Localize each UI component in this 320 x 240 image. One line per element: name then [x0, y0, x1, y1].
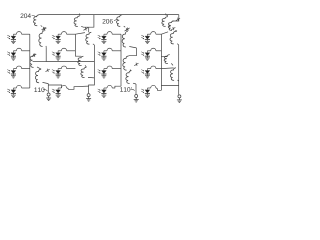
transistor C3	[170, 68, 178, 81]
wire right bus mid	[178, 45, 180, 81]
wire r3c4 to C3	[161, 67, 173, 70]
wire r2c2 to QB1b	[75, 51, 81, 56]
photodiode D43	[98, 88, 107, 97]
photodiode D33	[98, 69, 107, 78]
wire r1c4 to C2	[161, 32, 168, 34]
wire D34 anode lead	[147, 68, 150, 70]
wire h-link row3	[46, 61, 94, 63]
wire hop D13	[107, 32, 112, 35]
arrow right of Q2R	[134, 63, 138, 66]
label 110 prime	[120, 87, 123, 91]
wire Q2 corner	[33, 61, 47, 63]
wire r4c4 jog	[156, 88, 162, 90]
wire D22 row	[67, 50, 76, 52]
terminal output 112	[134, 95, 139, 103]
wire D12 row	[67, 33, 76, 35]
wire hop D32	[61, 66, 66, 69]
transistor Q1R	[122, 31, 136, 48]
photodiode D22	[52, 51, 61, 60]
photodiode D13	[98, 34, 107, 43]
wire D32 row	[67, 68, 76, 70]
wire rail right corner	[172, 15, 179, 21]
arrow above Q2	[32, 54, 36, 57]
photodiode D44	[141, 88, 150, 97]
leader 204	[32, 16, 36, 17]
transistor Q2R	[123, 56, 131, 71]
terminal output 110	[46, 93, 51, 101]
transistor QB1b	[78, 56, 87, 67]
label 110	[34, 88, 37, 92]
wire hop D33	[107, 66, 112, 69]
wire hop D34	[151, 66, 156, 69]
wire hop D24	[151, 48, 156, 51]
wire D24 anode lead	[147, 50, 150, 52]
arrow above Q1	[42, 28, 46, 31]
arrow at Q206 emitter	[126, 28, 130, 31]
photodiode D23	[98, 51, 107, 60]
photodiode D41	[7, 88, 16, 97]
transistor C2b	[164, 55, 173, 66]
leader 110 prime	[131, 89, 135, 90]
transistor QC	[162, 15, 171, 27]
wire r4c4 upper link	[161, 85, 178, 87]
transistor Q206	[117, 15, 126, 27]
wire column bus 4	[160, 34, 162, 90]
wire r4c3 corner	[115, 86, 121, 88]
wire D14 row	[156, 33, 162, 35]
transistor Q3R	[126, 71, 136, 84]
wire D31 anode lead	[13, 68, 16, 70]
arrow at Q204 emitter	[42, 27, 46, 30]
terminal output 2	[86, 94, 91, 102]
wire Q3 to terminal	[48, 84, 61, 93]
wire right bus lower	[178, 81, 180, 95]
wire column bus 1	[29, 34, 31, 88]
label 206	[103, 19, 106, 24]
photodiode D11	[7, 34, 16, 43]
leader 110	[43, 89, 48, 91]
photodiode D34	[141, 69, 150, 78]
arrow right of Q3	[46, 69, 50, 72]
wire hop D11	[16, 32, 21, 35]
wire D31 row	[22, 68, 30, 70]
transistor Q1	[39, 31, 46, 47]
wire left bus mid	[93, 45, 95, 78]
wire D21 row	[22, 50, 30, 52]
wire left bus lower	[89, 78, 95, 93]
wire hop D22	[61, 48, 66, 51]
wire D14 anode lead	[147, 33, 150, 35]
wire hop D41	[16, 85, 21, 88]
wire D34 row	[156, 68, 162, 70]
wire D43 anode lead	[104, 87, 107, 89]
wire Q1R exit	[129, 48, 137, 56]
junction tick QC tap	[165, 13, 168, 15]
wire D32 anode lead	[58, 68, 61, 70]
wire hop D43	[107, 85, 112, 88]
wire D41 row	[22, 87, 30, 89]
transistor QA	[74, 16, 89, 27]
transistor C2	[170, 31, 179, 45]
arrow above C1	[176, 18, 180, 21]
wire D24 row	[156, 50, 162, 52]
photodiode D12	[52, 34, 61, 43]
wire hop D12	[61, 32, 66, 35]
wire left bus from rail	[89, 15, 94, 33]
photodiode D32	[52, 69, 61, 78]
wire D21 anode lead	[13, 50, 16, 52]
wire Q1 exit	[45, 47, 47, 62]
wire D23 row	[112, 50, 121, 52]
leader 206	[114, 19, 117, 21]
wire hop D21	[16, 48, 21, 51]
transistor QB1	[86, 32, 95, 45]
wire column bus 3	[120, 34, 122, 86]
photodiode D31	[7, 69, 16, 78]
arrow at QA emitter	[84, 27, 88, 30]
wire D44 anode lead	[147, 87, 150, 89]
wire D23 anode lead	[104, 50, 107, 52]
photodiode D24	[141, 51, 150, 60]
wire r1c2 to QB1	[75, 33, 85, 35]
wire D22 anode lead	[58, 50, 61, 52]
wire r4c3 row	[112, 87, 115, 89]
transistor Q3	[35, 69, 48, 83]
wire hop D31	[16, 66, 21, 69]
wire Q3R to terminal	[135, 84, 137, 94]
transistor QB2	[81, 67, 95, 78]
transistor Q2	[30, 54, 41, 69]
transistor Q204	[34, 15, 43, 27]
wire D41 anode lead	[13, 87, 16, 89]
wire hop D23	[107, 48, 112, 51]
wire D12 anode lead	[58, 33, 61, 35]
wire D13 row	[112, 33, 121, 35]
terminal output 4	[177, 95, 182, 103]
arrow above Q1R	[125, 28, 129, 31]
wire hop D42	[61, 85, 66, 88]
label 204	[21, 13, 24, 18]
photodiode D14	[141, 34, 150, 43]
wire D33 anode lead	[104, 68, 107, 70]
arrow above C2	[171, 27, 175, 30]
wire D33 row	[112, 68, 121, 70]
wire D42 anode lead	[58, 87, 61, 89]
wire D13 anode lead	[104, 33, 107, 35]
wire hop D44	[151, 85, 156, 88]
junction tick QA tap	[78, 13, 81, 15]
wire VCC top rail	[39, 14, 179, 16]
wire hop D14	[151, 32, 156, 35]
photodiode D42	[52, 88, 61, 97]
wire D11 row	[22, 33, 30, 35]
wire r2c4 to C2b	[161, 56, 167, 58]
transistor C1	[168, 21, 177, 31]
photodiode D21	[7, 51, 16, 60]
wire column bus 2	[74, 34, 76, 51]
wire D11 anode lead	[13, 33, 16, 35]
wire r4c2 jog	[67, 86, 89, 89]
